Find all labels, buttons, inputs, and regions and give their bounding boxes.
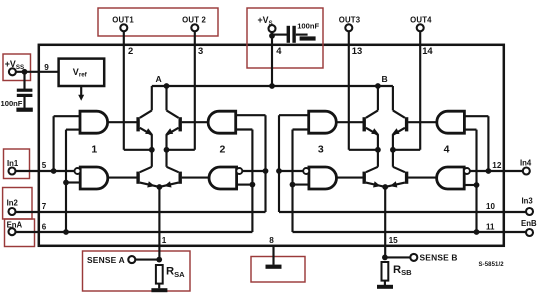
svg-text:6: 6 (42, 222, 47, 231)
svg-text:5: 5 (42, 161, 47, 170)
svg-text:OUT3: OUT3 (339, 15, 361, 24)
svg-text:1: 1 (162, 236, 167, 245)
svg-text:OUT 2: OUT 2 (182, 15, 206, 24)
svg-text:3: 3 (318, 143, 324, 155)
svg-text:In3: In3 (522, 196, 534, 205)
svg-text:1: 1 (91, 143, 97, 155)
svg-text:4: 4 (444, 143, 450, 155)
svg-text:S-5851/2: S-5851/2 (479, 262, 505, 268)
svg-text:14: 14 (422, 45, 433, 56)
svg-text:15: 15 (389, 236, 399, 245)
svg-text:OUT1: OUT1 (112, 15, 134, 24)
svg-text:SENSE B: SENSE B (420, 253, 458, 263)
svg-text:100nF: 100nF (1, 99, 23, 108)
svg-text:8: 8 (269, 236, 274, 245)
svg-text:SENSE A: SENSE A (87, 255, 125, 265)
svg-text:In2: In2 (7, 198, 19, 207)
svg-text:12: 12 (492, 161, 502, 170)
svg-text:EnB: EnB (521, 219, 537, 228)
svg-text:3: 3 (198, 45, 203, 56)
svg-text:In4: In4 (520, 158, 532, 167)
svg-text:7: 7 (42, 202, 47, 211)
svg-text:2: 2 (219, 143, 225, 155)
svg-text:10: 10 (486, 202, 495, 211)
svg-text:11: 11 (486, 222, 495, 231)
svg-text:B: B (381, 74, 387, 84)
svg-text:A: A (155, 74, 161, 84)
svg-text:13: 13 (352, 45, 362, 56)
svg-text:2: 2 (128, 45, 133, 56)
svg-text:100nF: 100nF (297, 22, 319, 31)
svg-text:In1: In1 (7, 159, 19, 168)
svg-text:OUT4: OUT4 (410, 15, 432, 24)
svg-text:4: 4 (276, 45, 282, 56)
svg-text:EnA: EnA (7, 220, 23, 229)
svg-text:9: 9 (44, 63, 49, 72)
